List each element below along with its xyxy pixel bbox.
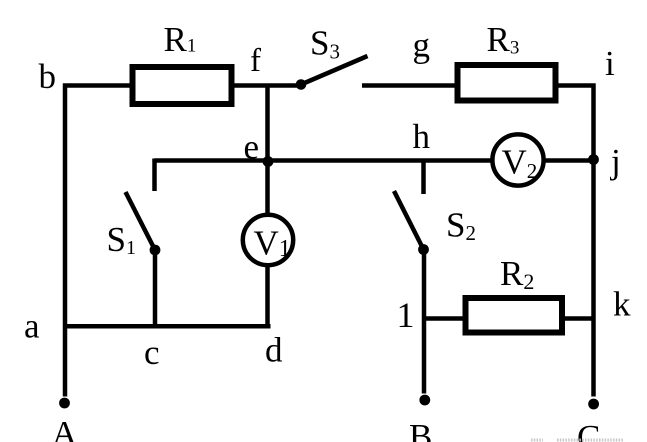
svg-text:A: A xyxy=(52,414,78,442)
svg-text:S3: S3 xyxy=(310,24,340,64)
svg-text:g: g xyxy=(413,26,431,65)
svg-text:k: k xyxy=(613,285,631,324)
svg-text:R3: R3 xyxy=(487,20,520,59)
svg-text:c: c xyxy=(144,333,160,372)
svg-text:i: i xyxy=(605,44,615,83)
svg-text:a: a xyxy=(24,307,40,346)
svg-text:f: f xyxy=(250,43,261,79)
svg-text:b: b xyxy=(39,57,57,96)
svg-text:j: j xyxy=(609,142,621,181)
svg-text:e: e xyxy=(244,128,260,167)
svg-text:d: d xyxy=(265,331,283,370)
svg-text:B: B xyxy=(409,417,432,442)
svg-text:R2: R2 xyxy=(500,254,534,294)
svg-text:R1: R1 xyxy=(164,20,197,59)
svg-text:S1: S1 xyxy=(107,220,136,259)
svg-text:h: h xyxy=(413,117,431,156)
svg-text:S2: S2 xyxy=(446,206,476,246)
svg-text:C: C xyxy=(577,418,600,442)
svg-text:1: 1 xyxy=(397,295,415,335)
